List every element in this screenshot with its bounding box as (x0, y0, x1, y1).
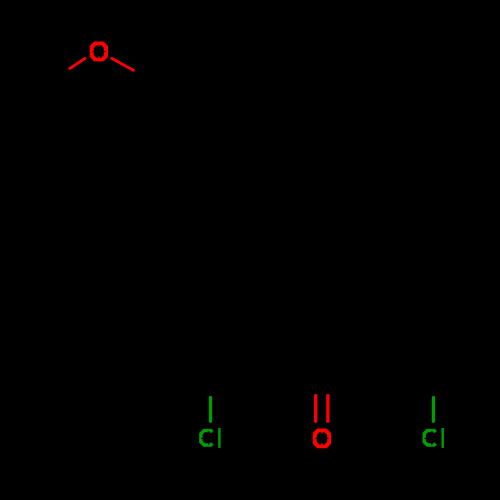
atom Cl2 label (right) (424, 428, 443, 448)
bond O1-C(aryl) red half (to ring, lower-right) (112, 58, 134, 70)
atom Cl1 label (left) (201, 428, 220, 448)
atom O1 (methoxy oxygen label, top-left) (90, 42, 108, 62)
bond C=O2 double bond red halves (carbonyl) (314, 396, 317, 422)
bond C-Cl1 green half (left chlorine) (209, 398, 212, 422)
bond C-Cl2 green half (right chlorine) (432, 398, 435, 422)
atom O2 (carbonyl oxygen label, bottom-center) (313, 429, 331, 449)
bond O1-CH3 red half (to methyl, lower-left) (70, 58, 85, 68)
